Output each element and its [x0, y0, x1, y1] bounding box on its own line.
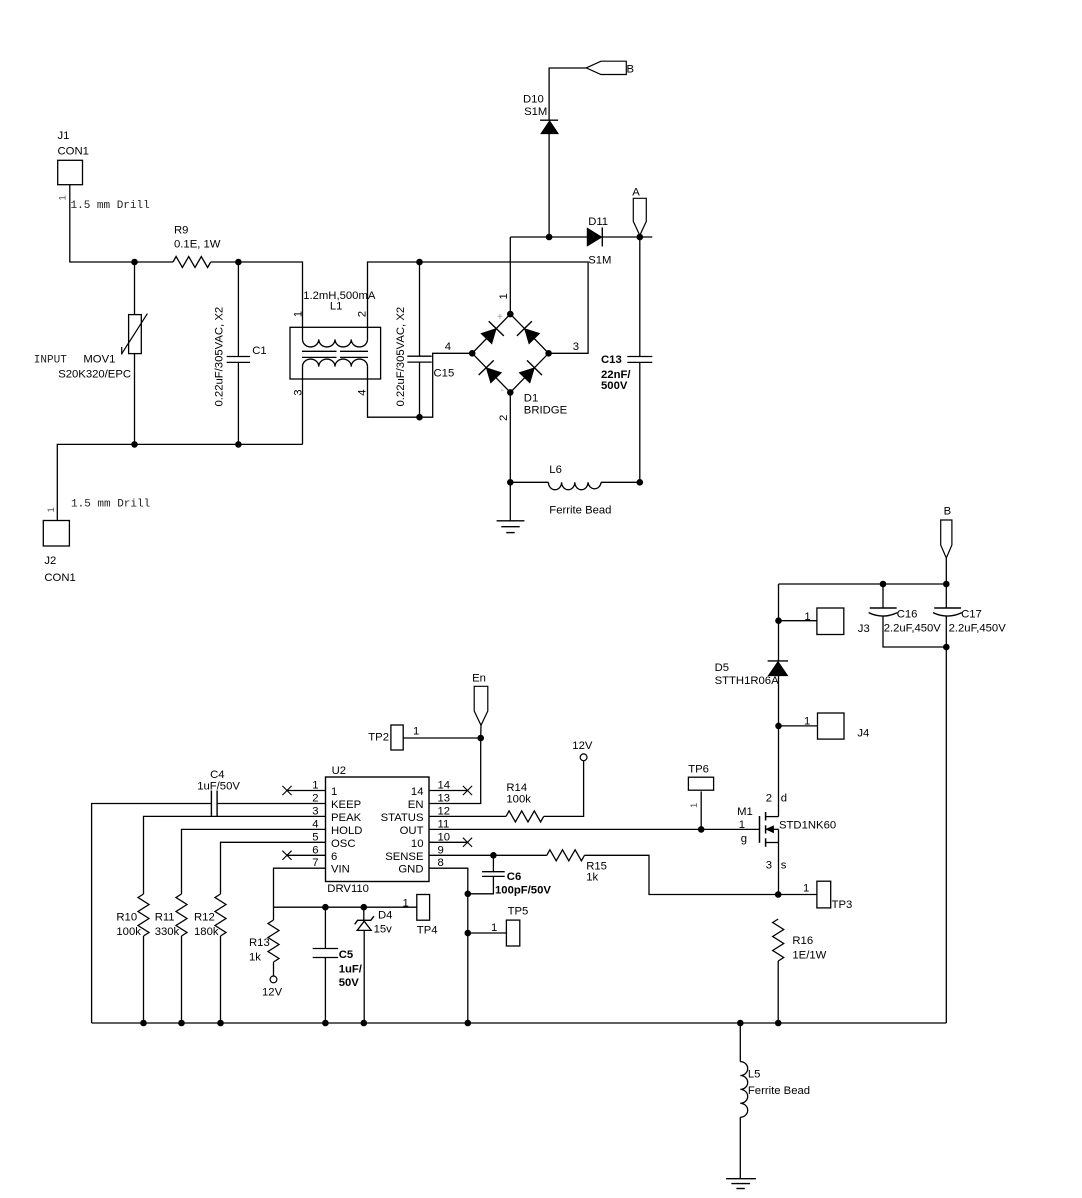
svg-text:3: 3 [766, 859, 772, 871]
svg-text:3: 3 [312, 805, 318, 817]
junction node A [637, 234, 644, 241]
svg-text:EN: EN [408, 799, 424, 811]
junction node C15 top [416, 259, 423, 266]
svg-text:s: s [781, 859, 787, 871]
svg-text:50V: 50V [339, 977, 360, 989]
wire TP2 to node [403, 737, 481, 739]
svg-text:1: 1 [689, 803, 700, 808]
svg-text:C6: C6 [507, 871, 521, 883]
svg-text:R16: R16 [792, 935, 813, 947]
svg-text:J4: J4 [857, 728, 869, 740]
svg-text:1: 1 [804, 611, 810, 623]
wire L1 pin 4 to bridge pin 4 [368, 353, 473, 417]
wire to ground [509, 482, 511, 521]
svg-text:2.2uF,450V: 2.2uF,450V [884, 623, 942, 635]
svg-text:B: B [627, 63, 635, 75]
svg-text:+: + [497, 312, 503, 323]
wire bridge pin 2 down [509, 392, 511, 482]
svg-text:D4: D4 [378, 910, 392, 922]
resistor R10 [116, 894, 149, 938]
svg-text:TP5: TP5 [508, 906, 529, 918]
capacitor C5 [313, 949, 363, 990]
svg-text:6: 6 [312, 844, 318, 856]
junction node at J1/MOV1 [131, 259, 138, 266]
junction node bridge bottom [507, 389, 514, 396]
wire MOV1 branch [134, 262, 136, 315]
connector J1 [58, 130, 89, 185]
wire R9 to L1 pin 1 [211, 262, 303, 339]
svg-text:1: 1 [331, 786, 337, 798]
svg-text:15v: 15v [374, 924, 393, 936]
svg-text:TP2: TP2 [368, 732, 389, 744]
wire L5 leads [739, 1023, 741, 1062]
svg-text:HOLD: HOLD [331, 825, 362, 837]
svg-text:1: 1 [803, 883, 809, 895]
wire OSC to R12 [221, 842, 326, 894]
flag B (top) [586, 61, 634, 75]
wire HOLD to R11 [182, 829, 326, 894]
svg-text:1: 1 [293, 311, 305, 317]
svg-text:TP3: TP3 [832, 899, 853, 911]
wire VIN to R13 [274, 868, 326, 920]
svg-text:2.2uF,450V: 2.2uF,450V [949, 623, 1007, 635]
svg-text:2: 2 [312, 793, 318, 805]
svg-text:En: En [472, 673, 486, 685]
junction node C15 bottom [416, 414, 423, 421]
wire R11 to rail [181, 936, 183, 1023]
svg-text:PEAK: PEAK [331, 812, 362, 824]
connector J2 [43, 521, 75, 584]
wire D4 leads [363, 907, 365, 920]
zener diode D4 [355, 910, 393, 936]
capacitor C17 [933, 608, 1006, 635]
junction node C6 [490, 852, 497, 859]
wire HV rail [779, 583, 947, 585]
svg-text:MOV1: MOV1 [83, 354, 115, 366]
svg-text:CON1: CON1 [44, 572, 75, 584]
svg-text:g: g [741, 833, 747, 845]
junction node C16/C17 bottom [943, 644, 950, 651]
test point TP4 [417, 895, 438, 937]
pin 10 stub of U2 (no connect) [429, 841, 468, 843]
svg-text:1k: 1k [586, 872, 598, 884]
junction node rail/R12 [217, 1020, 224, 1027]
svg-text:D5: D5 [715, 662, 729, 674]
svg-text:BRIDGE: BRIDGE [524, 405, 568, 417]
wire D5 to M1 drain [778, 676, 780, 817]
svg-text:8: 8 [438, 857, 444, 869]
wire En to EN pin [480, 725, 482, 738]
svg-text:STATUS: STATUS [381, 812, 424, 824]
svg-text:C17: C17 [961, 609, 982, 621]
flag En [472, 673, 488, 726]
supply 12V (R14) [572, 740, 593, 761]
svg-text:GND: GND [398, 864, 423, 876]
test point TP5 [506, 906, 528, 947]
svg-text:1: 1 [46, 507, 57, 512]
svg-text:12V: 12V [572, 740, 593, 752]
svg-text:KEEP: KEEP [331, 799, 361, 811]
junction node rail/C5 [322, 1020, 329, 1027]
wire TP6 to OUT net [700, 791, 702, 829]
svg-text:100k: 100k [116, 926, 141, 938]
svg-text:1uF/50V: 1uF/50V [197, 781, 240, 793]
svg-text:1.5 mm Drill: 1.5 mm Drill [71, 200, 150, 212]
svg-text:1: 1 [58, 195, 69, 200]
wire bridge pin 1 up [509, 237, 511, 314]
svg-text:1: 1 [498, 293, 510, 299]
ground symbol (bridge) [497, 521, 525, 533]
svg-text:R13: R13 [249, 937, 270, 949]
svg-text:4: 4 [445, 341, 451, 353]
pin 6 stub of U2 (no connect) [287, 854, 326, 856]
junction node J4 [775, 723, 782, 730]
svg-text:180k: 180k [194, 926, 219, 938]
svg-text:1E/1W: 1E/1W [792, 950, 826, 962]
common-mode choke L1 [290, 290, 381, 379]
svg-text:1: 1 [804, 716, 810, 728]
svg-text:Ferrite Bead: Ferrite Bead [748, 1085, 810, 1097]
wire SENSE to R15 [429, 854, 547, 856]
capacitor C15 [395, 307, 454, 407]
svg-text:10: 10 [411, 838, 424, 850]
varistor MOV1 [34, 314, 148, 381]
resistor R14 [506, 782, 544, 822]
svg-text:CON1: CON1 [58, 146, 89, 158]
bridge rectifier D1 [472, 314, 567, 416]
wire GND pin to rail [429, 868, 468, 1023]
diode D11 [587, 216, 611, 266]
wire PEAK to R10 [144, 816, 326, 894]
wire VIN branch to C5 D4 TP4 [274, 906, 417, 908]
svg-text:1: 1 [312, 780, 318, 792]
supply 12V (R13) [262, 976, 283, 999]
wire J3 to node [779, 620, 817, 622]
svg-text:A: A [632, 187, 640, 199]
junction node MOV1/rail [131, 441, 138, 448]
svg-text:12: 12 [438, 805, 451, 817]
svg-text:0.22uF/305VAC, X2: 0.22uF/305VAC, X2 [214, 307, 226, 407]
svg-text:C1: C1 [252, 345, 266, 357]
neutral rail wire [57, 444, 302, 520]
wire 12V to R14 [544, 761, 584, 817]
svg-text:12V: 12V [262, 987, 283, 999]
svg-text:R14: R14 [506, 782, 527, 794]
svg-text:J1: J1 [58, 130, 70, 142]
svg-text:6: 6 [331, 851, 337, 863]
test point TP6 [688, 764, 713, 791]
junction node rail/R11 [178, 1020, 185, 1027]
wire rail to D5 [778, 584, 780, 661]
wire C15 leads [419, 262, 421, 356]
svg-text:14: 14 [411, 786, 424, 798]
junction node C6/GND net [465, 891, 472, 898]
wire C6 leads [492, 855, 494, 871]
svg-text:TP6: TP6 [688, 764, 709, 776]
ground rail wire [92, 1022, 947, 1024]
junction node L6 right [637, 479, 644, 486]
svg-text:DRV110: DRV110 [327, 883, 369, 895]
junction node D10/D11 [546, 234, 553, 241]
ground symbol (L5) [726, 1179, 756, 1189]
wire D11 to node A [602, 236, 652, 238]
junction node D4 [361, 904, 368, 911]
capacitor C4 [197, 769, 240, 816]
junction node TP5 [465, 930, 472, 937]
svg-text:14: 14 [438, 780, 451, 792]
svg-text:C4: C4 [210, 769, 224, 781]
svg-text:D11: D11 [588, 216, 608, 228]
wire D10 to flag B [549, 68, 586, 120]
svg-text:D10: D10 [523, 93, 544, 105]
capacitor C1 [214, 307, 267, 407]
wire R10 to rail [143, 936, 145, 1023]
junction node rail/D4 [361, 1020, 368, 1027]
mosfet M1 [737, 806, 836, 847]
svg-text:U2: U2 [332, 765, 346, 777]
svg-text:500V: 500V [601, 380, 628, 392]
svg-text:5: 5 [312, 831, 318, 843]
wire R15 to M1 source node [585, 855, 779, 894]
svg-text:4: 4 [357, 389, 369, 395]
wire TP5 to GND net [468, 932, 507, 934]
wire C5 leads [324, 907, 326, 948]
svg-text:100pF/50V: 100pF/50V [495, 885, 551, 897]
junction node rail/R10 [140, 1020, 147, 1027]
connector J3 [804, 608, 869, 635]
svg-text:1: 1 [403, 897, 409, 909]
junction node rail/L5 [737, 1020, 744, 1027]
junction node C16 top [880, 581, 887, 588]
svg-text:TP4: TP4 [417, 925, 438, 937]
resistor R15 [547, 850, 607, 884]
svg-text:R11: R11 [155, 912, 175, 924]
wire KEEP net [217, 803, 325, 805]
junction node C1/rail [235, 441, 242, 448]
svg-text:M1: M1 [737, 806, 753, 818]
svg-text:4: 4 [312, 818, 318, 830]
svg-text:2: 2 [498, 415, 510, 421]
test point TP3 [817, 881, 852, 911]
junction node rail/R16 [775, 1020, 782, 1027]
wire source node to TP3 [778, 894, 817, 896]
wire R14 to STATUS pin [429, 815, 506, 817]
resistor R12 [194, 894, 226, 938]
svg-text:VIN: VIN [331, 864, 350, 876]
svg-text:330k: 330k [155, 926, 180, 938]
svg-text:S1M: S1M [588, 254, 611, 266]
svg-text:7: 7 [312, 857, 318, 869]
wire R13 to 12V [273, 962, 275, 976]
resistor R11 [155, 894, 187, 938]
svg-text:13: 13 [438, 793, 451, 805]
junction node M1 source [775, 891, 782, 898]
svg-text:OSC: OSC [331, 838, 355, 850]
wire M1 source down [778, 843, 780, 895]
svg-text:9: 9 [438, 844, 444, 856]
svg-text:C5: C5 [339, 949, 353, 961]
wire L1 pin 2 to bridge pin 3 [368, 262, 589, 353]
svg-text:2: 2 [766, 792, 772, 804]
connector J4 [804, 713, 869, 740]
capacitor C16 [869, 608, 942, 635]
svg-text:J3: J3 [858, 623, 870, 635]
svg-text:L6: L6 [549, 464, 562, 476]
junction node C17 top [943, 581, 950, 588]
resistor R13 [249, 920, 279, 964]
svg-text:10: 10 [438, 831, 451, 843]
wire C1 branch [237, 262, 239, 357]
svg-text:R12: R12 [194, 912, 215, 924]
wire R16 to rail [777, 961, 779, 1023]
svg-text:22nF/: 22nF/ [601, 369, 631, 381]
svg-text:C15: C15 [434, 368, 455, 380]
svg-text:d: d [781, 792, 787, 804]
svg-text:Ferrite Bead: Ferrite Bead [549, 505, 611, 517]
svg-text:SENSE: SENSE [385, 851, 424, 863]
svg-text:1uF/: 1uF/ [339, 964, 363, 976]
svg-text:S1M: S1M [524, 106, 547, 118]
svg-text:STTH1R06A: STTH1R06A [715, 675, 780, 687]
resistor R16 [773, 919, 827, 962]
svg-text:J2: J2 [44, 555, 56, 567]
wire L1 pin 3 to neutral rail [302, 367, 304, 445]
wire J4 to node [779, 725, 818, 727]
svg-text:1.5 mm Drill: 1.5 mm Drill [71, 498, 150, 510]
junction node rail/GND [465, 1020, 472, 1027]
svg-text:2: 2 [357, 311, 369, 317]
junction node TP6 [698, 826, 705, 833]
junction node bridge right [545, 350, 552, 357]
junction node bridge top [507, 311, 514, 318]
svg-text:3: 3 [573, 341, 579, 353]
svg-text:0.22uF/305VAC, X2: 0.22uF/305VAC, X2 [395, 307, 407, 407]
junction node L6 left [507, 479, 514, 486]
svg-text:11: 11 [438, 818, 450, 830]
wire DC node horizontal [510, 236, 587, 238]
wire C13 leads [639, 237, 641, 357]
junction node J3 [775, 617, 782, 624]
svg-text:S20K320/EPC: S20K320/EPC [58, 369, 131, 381]
svg-text:0.1E, 1W: 0.1E, 1W [174, 239, 221, 251]
svg-text:L5: L5 [748, 1069, 761, 1081]
svg-text:1: 1 [413, 726, 419, 738]
wire B flag to rail [945, 558, 947, 584]
diode D10 [523, 93, 558, 133]
diode D5 [715, 661, 789, 687]
IC U2 DRV110 [326, 765, 430, 895]
resistor R9 [173, 224, 221, 267]
wire C16 leads [882, 584, 884, 608]
svg-text:1k: 1k [249, 952, 261, 964]
wire L6 right [601, 481, 640, 483]
svg-text:L1: L1 [330, 301, 343, 313]
wire R12 to rail [220, 936, 222, 1023]
svg-text:100k: 100k [506, 794, 531, 806]
wire OUT to M1 gate [429, 828, 760, 830]
junction node at R9/C1 [235, 259, 242, 266]
wire L6 left [510, 481, 548, 483]
svg-text:1: 1 [739, 819, 745, 831]
svg-text:B: B [944, 506, 952, 518]
test point TP2 [368, 725, 403, 750]
pin 14 stub of U2 (no connect) [429, 790, 468, 792]
capacitor C6 [482, 871, 551, 897]
svg-text:1: 1 [491, 922, 497, 934]
svg-text:C16: C16 [897, 609, 918, 621]
svg-text:R9: R9 [174, 224, 188, 236]
ferrite bead L5 [740, 1062, 810, 1118]
wire C17 leads [945, 584, 947, 608]
svg-text:C13: C13 [601, 354, 622, 366]
flag B (bottom) [941, 506, 952, 559]
capacitor C13 [601, 354, 652, 392]
ferrite bead L6 [548, 464, 611, 517]
pin 1 stub of U2 (no connect) [287, 790, 326, 792]
svg-text:STD1NK60: STD1NK60 [779, 820, 836, 832]
svg-text:OUT: OUT [400, 825, 424, 837]
svg-text:D1: D1 [524, 393, 538, 405]
junction node C5 [322, 904, 329, 911]
wire J1 to node [70, 185, 173, 262]
junction node En/TP2 [477, 735, 484, 742]
wire D10 to node [548, 134, 550, 237]
svg-text:INPUT: INPUT [34, 355, 67, 367]
svg-text:R10: R10 [116, 912, 137, 924]
flag A [632, 187, 646, 236]
junction node bridge left [469, 350, 476, 357]
svg-text:-: - [501, 385, 504, 396]
